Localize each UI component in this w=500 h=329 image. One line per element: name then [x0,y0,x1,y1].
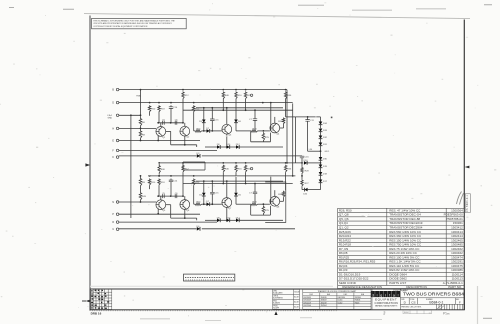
top paper edge faint line [84,14,470,19]
terminal H [116,127,119,130]
wire upper [183,109,293,111]
junction upper top bus [235,89,237,91]
wire upper [220,146,227,148]
resistor R28 [301,167,303,174]
wire lower Q8 emitter [270,206,272,215]
junction GND / R6 top [140,114,142,116]
wire lower [211,181,213,192]
junction lower second bus [158,175,160,177]
wire lower [235,196,237,204]
wire net K row [119,155,197,157]
diode D12 [236,219,239,223]
wire upper [283,125,285,129]
wire upper [170,108,172,123]
junction C11 top [307,116,309,118]
resistor R24 [252,203,258,206]
wire stack bottom [308,189,321,191]
module connector outline [184,274,235,281]
wire lower [250,205,252,215]
resistor R9 [139,176,142,188]
svg-text:CHK’D.: CHK’D. [273,295,279,297]
terminal F [116,149,119,152]
junction lower top bus [222,162,224,164]
wire upper [236,130,252,132]
pencil squiggle above table [457,192,464,205]
svg-text:REFERENCE DESIGNATION: REFERENCE DESIGNATION [342,285,382,289]
rotated drawing number label [465,194,470,213]
wire upper [202,130,207,132]
wire upper [235,100,237,120]
resistor R15 [196,203,202,206]
wire lower [196,180,283,182]
diode D10 [227,145,230,149]
pencil boxes [403,310,432,313]
junction D row [262,102,264,104]
wire [320,125,322,129]
svg-text:TP(B): TP(B) [136,96,141,98]
wire lower [210,203,222,205]
logo company name [374,298,398,308]
svg-text:l: l [398,292,399,297]
resistor R24 [252,130,258,133]
svg-text:ENG.: ENG. [273,300,277,302]
resistor R16 [235,91,237,99]
resistor R25 [262,205,265,215]
wire lower [203,181,205,193]
wire lower coupling row [158,195,183,197]
transistor Q7 [222,198,232,208]
wire upper loop row [171,144,197,146]
junction upper second bus [170,102,172,104]
wire lower [235,173,237,193]
transistor & diode conversion chart [303,289,371,309]
svg-text:D-662: D-662 [338,302,343,304]
diode D3 [197,154,200,158]
capacitor C7 [253,119,257,121]
wire [301,158,303,167]
right border [463,20,465,311]
resistor R40 [222,91,225,99]
up arrow marker [274,311,277,315]
wire [301,174,303,179]
top border specks [9,4,492,10]
wire [301,155,303,157]
zone arrow left low [86,300,91,303]
wire lower Q7 collector [226,181,228,198]
diode D8 [217,219,220,223]
wire lower [258,203,270,205]
transistor Q6 [180,200,190,210]
diode D16 [304,161,307,165]
wire lower [170,182,172,197]
terminal P [116,213,119,216]
wire [307,117,309,120]
junction B row / TP column [140,89,142,91]
terminal U [116,228,119,231]
wire lower [245,173,247,184]
diode D18 [319,172,323,175]
wire lower [193,186,195,204]
test point bubble lower [250,167,252,169]
svg-text:IN645: IN645 [355,302,360,304]
capacitor C15 [210,119,214,121]
svg-text:GB 1: GB 1 [325,151,331,153]
wire upper [196,107,283,109]
resistor R10 [148,105,151,112]
wire upper [239,146,283,148]
size/code/number row [400,298,464,305]
wire upper Q4 emitter [270,133,272,142]
wire lower top bus [159,162,302,164]
resistor R25 [262,132,265,142]
wire upper [203,108,205,120]
diode D5 [202,120,206,123]
wire [320,160,322,165]
svg-text:CORPORATION: CORPORATION [374,301,398,305]
wire to diode stack [295,116,320,118]
wire net U row right [202,228,295,230]
svg-text:R.DUFF: R.DUFF [273,307,279,309]
wire upper [222,100,224,111]
capacitor C5 [163,194,165,198]
wire [320,168,322,173]
resistor R20 [244,91,247,99]
wire lower [149,186,151,189]
junction D row [270,102,272,104]
resistor R30 [282,118,285,125]
diode D32 [319,136,323,139]
wire lower [211,194,213,204]
transistor Q8 [270,196,280,206]
diode D6 [234,120,238,123]
junction lower second bus [149,175,151,177]
wire net B row [119,89,287,91]
diode D19 [319,165,323,168]
wire lower emitter loop [251,214,271,216]
wire net GND row [119,114,141,116]
wire stack top [320,117,322,122]
svg-text:g: g [380,292,382,297]
fold line artifact [90,285,333,287]
terminal N [116,201,119,204]
perforation dots [92,310,338,312]
wire lower [285,173,287,190]
wire feedback loop lower [265,182,286,222]
junction lower D bus [140,175,142,177]
junction lower top bus [285,162,287,164]
svg-text:PROD.: PROD. [273,305,279,307]
svg-text:2N2904: 2N2904 [321,305,327,307]
wire lower Q7 emitter [226,207,228,220]
junction lower second bus [193,175,195,177]
svg-text:CS: CS [411,300,415,304]
junction lower bus [301,162,303,164]
resistor R6 [139,116,142,128]
wire lower Q5 collector [160,196,162,200]
wire lower [170,179,172,181]
wire [320,132,322,136]
wire lower Q6 emitter [184,209,186,218]
wire lower [254,194,256,205]
resistor R16 [235,165,237,173]
diode D31 [319,143,323,146]
wire C11 bottom to GB node [308,150,321,152]
pc rev marks [437,305,444,309]
diode D5 [202,193,206,196]
wire lower diode row [205,219,217,221]
wire upper [230,146,237,148]
wire upper [211,121,213,131]
wire lower [194,203,196,205]
junction upper second bus [193,102,195,104]
svg-text:PART NO.: PART NO. [448,285,462,289]
capacitor C16 [300,156,304,158]
junction E row / R8 bottom [140,140,142,142]
svg-text:i: i [377,292,378,297]
wire upper coupling row [158,122,183,124]
wire net F row [119,149,217,151]
svg-text:DRN.: DRN. [273,290,277,292]
junction lower top bus [245,162,247,164]
wire [320,175,322,180]
svg-text:8-5-68: 8-5-68 [294,306,299,308]
svg-text:DRB 16: DRB 16 [91,311,102,315]
junction lower second bus [170,175,172,177]
zone arrow left mid [85,163,90,166]
wire upper [196,145,198,147]
terminal B [116,88,119,91]
resistor R27 [301,179,303,186]
terminal K [116,156,119,159]
test point bubble upper [250,94,252,96]
svg-text:B684-0-1: B684-0-1 [429,301,443,305]
wire [320,146,322,158]
wire upper [285,100,287,117]
wire [320,139,322,143]
wire upper Q1 emitter [157,135,159,140]
svg-text:COPYRIGHT 1968 BY DIGITAL EQUI: COPYRIGHT 1968 BY DIGITAL EQUIPMENT CORP… [93,25,148,28]
resistor R14 [192,105,195,112]
terminal D [116,101,119,104]
capacitor C5 [163,121,165,125]
revision block [91,289,112,309]
zone arrow right [465,166,470,169]
wire upper [210,130,222,132]
svg-text:DESCRIPTION: DESCRIPTION [406,285,427,289]
svg-text:PRINTED CIRCUIT REV.: PRINTED CIRCUIT REV. [401,307,422,309]
svg-text:GND: GND [108,117,113,119]
wire upper [170,131,172,144]
junction N row [140,201,142,203]
svg-text:TRANSISTOR & DIODE CONVERSION: TRANSISTOR & DIODE CONVERSION CHART [318,290,358,293]
resistor R12 [182,165,184,173]
resistor R8 [139,129,142,141]
wire upper [166,130,171,132]
transistor Q3 [222,124,232,134]
wire [140,188,142,191]
signature block [273,289,300,309]
svg-text:THIS SCHEMATIC IS FURNISHED ON: THIS SCHEMATIC IS FURNISHED ONLY FOR TES… [93,19,175,22]
wire upper [235,123,237,131]
wire upper [149,113,151,116]
wire GND bus vertical [130,115,132,218]
wire upper [194,130,196,132]
terminal E [116,139,119,142]
wire lower Q8 collector [274,190,276,196]
wire upper Q3 collector [226,108,228,125]
junction H row / R6-R8 [140,127,142,129]
junction upper top bus [285,89,287,91]
wire upper Q3 emitter [226,134,228,147]
svg-text:P1nx: P1nx [443,311,450,315]
diode D17 [319,180,323,183]
wire right bus 3 [294,117,296,163]
junction lower top bus [235,162,237,164]
capacitor C11 [305,120,309,122]
wire lower [239,219,283,221]
resistor R36 [284,91,287,99]
wire upper [280,127,284,129]
resistor R45 [139,191,142,202]
wire [320,183,322,190]
wire net K row right [202,155,302,157]
resistor R46 [158,164,161,175]
transistor Q1 [156,126,166,136]
diode D30 [319,157,323,160]
junction upper emitter row [157,140,159,142]
wire upper [270,103,272,130]
wire [196,155,198,157]
resistor R15 [196,130,202,133]
wire upper [258,130,270,132]
junction upper top bus [245,89,247,91]
wire upper cap feed [286,116,296,118]
capacitor C6 [175,194,177,198]
resistor R30 [282,191,285,198]
wire lower [203,196,205,204]
diode D12 [236,145,239,149]
wire feedback loop upper [183,162,205,170]
capacitor C7 [253,192,257,194]
junction lower second bus [158,175,160,177]
wire upper Q2 collector [184,123,186,127]
wire net R row [119,221,217,223]
wire lower [202,203,207,205]
terminal GND [116,114,119,117]
resistor R20 [244,165,247,173]
left border [89,16,91,311]
junction GND row [130,114,132,116]
wire right bus 2 [292,103,294,175]
wire net U row [119,228,197,230]
diode D4 [197,227,200,231]
wire lower [170,205,172,218]
wire net H row [119,127,156,129]
junction lower top bus [182,162,184,164]
wire upper [254,120,256,131]
wire lower [280,200,284,202]
wire upper [254,110,256,119]
DEC digital logo [371,291,400,297]
wire upper [182,100,184,123]
wire [301,187,303,190]
diode D34 [319,122,323,125]
wire TP column [140,90,142,117]
wire lower second bus [148,175,295,177]
svg-text:7-30-68: 7-30-68 [294,292,300,294]
resistor R36 [284,165,287,173]
svg-text:PARTS LIST: PARTS LIST [389,281,406,285]
wire upper [170,105,172,107]
diode D40 [304,188,307,192]
wire lower [183,183,293,185]
junction lower emitter row [157,213,159,215]
wire net E row [119,140,200,142]
resistor R18 [158,105,160,112]
wire lower [230,219,237,221]
capacitor C14 [169,107,173,109]
diode D7 [207,129,210,133]
bottom specks [140,318,492,321]
diode D8 [217,145,220,149]
diode D10 [227,219,230,223]
notice box [92,18,187,28]
wire lower [222,173,224,184]
resistor R10 [148,179,151,186]
wire lower Q5 emitter [157,209,159,214]
wire lower loop row [171,217,197,219]
junction upper top bus [222,89,224,91]
svg-text:DEC2904: DEC2904 [304,305,311,307]
wire upper Q1 collector [160,123,162,127]
wire upper [211,108,213,119]
transistor Q2 [180,126,190,136]
wire lower [283,198,285,202]
wire lower [158,186,160,196]
title strip outline [90,289,464,310]
wire lower [166,204,171,206]
wire lower [270,177,272,205]
wire upper [250,131,252,141]
wire [302,189,304,191]
capacitor C6 [175,121,177,125]
wire upper [158,113,160,123]
wire upper Q4 collector [274,117,276,123]
wire lower [196,218,198,220]
resistor R18 [158,179,160,186]
capacitor C14 [169,180,173,182]
wire [307,162,320,164]
svg-text:8-2-68: 8-2-68 [294,302,299,304]
wire upper [245,100,247,111]
resistor R40 [222,165,225,173]
junction upper top bus [182,89,184,91]
diode D6 [234,193,238,196]
wire upper Q2 emitter [184,136,186,145]
junction upper second bus [149,102,151,104]
wire C11 bottom [307,121,309,151]
svg-text:F: F [459,301,461,305]
svg-text:CIRCUITS ARE PROPRIETARY IN NA: CIRCUITS ARE PROPRIETARY IN NATURE AND S… [93,22,172,25]
paper edge shadow bottom right [477,286,479,324]
wire lower Q6 collector [184,196,186,200]
junction lower bus [286,162,288,164]
junction lower bus [158,162,160,164]
resistor R14 [192,179,195,186]
terminal R [116,221,119,224]
junction lower second bus [292,175,294,177]
svg-text:8-2-68: 8-2-68 [294,297,299,299]
